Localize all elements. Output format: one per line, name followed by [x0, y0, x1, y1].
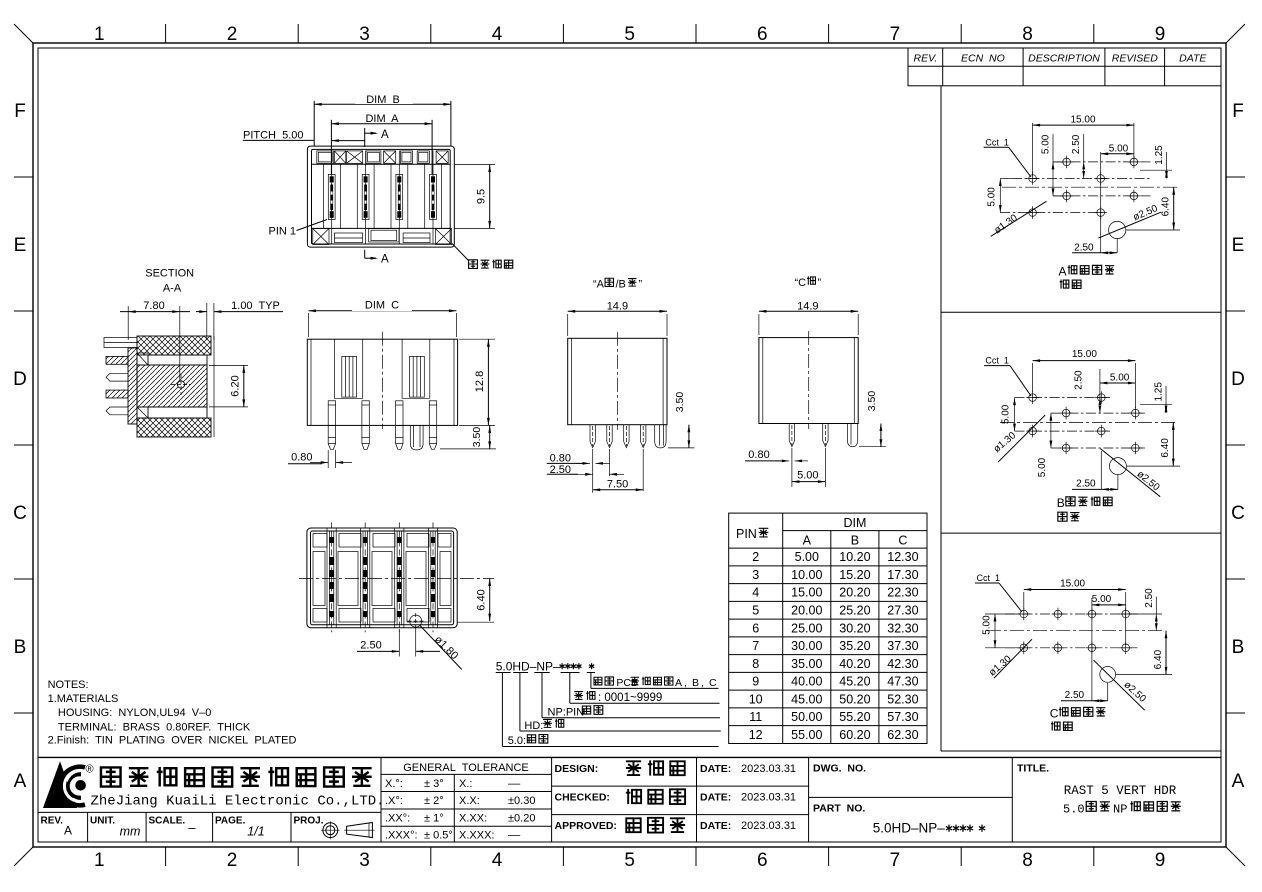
- panel C center axis dash-dot: [987, 630, 1165, 632]
- svg-text:6.40: 6.40: [475, 589, 487, 610]
- corner diagonal bottom-right: [1226, 847, 1245, 866]
- svg-text:50.00: 50.00: [791, 710, 822, 724]
- svg-text:D: D: [13, 369, 27, 390]
- projection symbol circle: [323, 823, 338, 838]
- dim 6.40 bottom view: [458, 621, 495, 623]
- svg-text:7: 7: [890, 850, 901, 871]
- svg-text:“C: “C: [795, 277, 807, 289]
- right panel bottom border: [941, 750, 1221, 752]
- svg-text:A: A: [381, 129, 389, 141]
- svg-text:0.80: 0.80: [291, 452, 312, 464]
- svg-text:10.00: 10.00: [791, 568, 822, 582]
- svg-text:30.20: 30.20: [839, 621, 870, 635]
- svg-text:SCALE.: SCALE.: [149, 816, 186, 827]
- section A-A left wall hatch: [128, 348, 137, 424]
- panel A dim 2.50 top: [1083, 134, 1085, 178]
- svg-text:±0.20: ±0.20: [508, 812, 535, 824]
- svg-text:1/1: 1/1: [247, 825, 264, 839]
- svg-text:F: F: [14, 101, 26, 122]
- svg-text:PIN: PIN: [736, 527, 757, 541]
- svg-text:A: A: [1232, 771, 1245, 792]
- svg-text:25.20: 25.20: [839, 604, 870, 618]
- bottom edge column ticks: [165, 847, 167, 866]
- svg-text:A: A: [14, 771, 27, 792]
- C type peg: [847, 424, 857, 447]
- svg-text:X.XX:: X.XX:: [459, 812, 487, 824]
- panel B leader phi1.30: [998, 415, 1045, 462]
- svg-text:1.25: 1.25: [1154, 145, 1165, 165]
- dim 6.20: [209, 364, 248, 366]
- svg-text:3: 3: [359, 850, 370, 871]
- svg-text:5.0: 5.0: [1063, 803, 1085, 817]
- svg-text:PROJ.: PROJ.: [294, 816, 324, 827]
- general tolerance table: [551, 757, 553, 842]
- projection symbol cone: [347, 823, 373, 838]
- svg-text:Cct 1: Cct 1: [985, 138, 1009, 148]
- svg-text:1.25: 1.25: [1154, 382, 1165, 402]
- bottom view terminal column 4: [427, 528, 429, 628]
- panel B hole pattern: [1029, 394, 1037, 402]
- svg-text:: 0001~9999: : 0001~9999: [598, 692, 662, 704]
- svg-text:2.50: 2.50: [1076, 479, 1096, 490]
- svg-text:5.00: 5.00: [1092, 594, 1112, 605]
- panel A dim 15.00: [1032, 123, 1034, 176]
- section A-A pin 2: [106, 356, 128, 364]
- svg-text:A: A: [675, 677, 682, 689]
- svg-text:14.9: 14.9: [797, 300, 818, 312]
- corner diagonal top-left: [14, 24, 33, 43]
- svg-text:15.00: 15.00: [1072, 349, 1097, 360]
- svg-text:6: 6: [757, 850, 768, 871]
- svg-text:3: 3: [359, 24, 370, 45]
- dim 3.50 C: [859, 446, 886, 448]
- svg-text:C: C: [1050, 707, 1059, 721]
- front view bottom notch right: [403, 233, 430, 243]
- svg-text:6: 6: [757, 24, 768, 45]
- svg-text:5.0:: 5.0:: [508, 735, 526, 747]
- panel B dim 1.25: [1140, 404, 1172, 406]
- front view bottom notch left: [334, 233, 362, 243]
- svg-text:NP:PIN: NP:PIN: [548, 706, 585, 718]
- svg-text:NP: NP: [1113, 803, 1127, 817]
- svg-text:14.9: 14.9: [607, 300, 628, 312]
- right panel divider A/B: [941, 311, 1221, 313]
- bottom view terminal column 3: [394, 528, 396, 628]
- svg-text:30.00: 30.00: [791, 639, 822, 653]
- svg-text:2.50: 2.50: [1144, 588, 1155, 608]
- section A-A hatched middle block: [137, 365, 207, 407]
- svg-text:2.Finish: TIN PLATING OVER: 2.Finish: TIN PLATING OVER NICKEL PLATED: [48, 735, 297, 747]
- panel A dim 6.40: [1126, 229, 1180, 231]
- dim 7.50 A/B: [592, 449, 594, 493]
- dim C view pins: [328, 401, 335, 426]
- svg-text:–: –: [188, 820, 196, 835]
- section A-A right wall lines: [206, 355, 208, 418]
- svg-text:7.80: 7.80: [143, 300, 164, 312]
- svg-text:35.00: 35.00: [791, 657, 822, 671]
- title block top border: [38, 756, 1221, 758]
- section mark A top: [364, 128, 366, 147]
- svg-text:10: 10: [749, 692, 763, 706]
- panel C dim 2.50 bottom: [1107, 683, 1109, 701]
- svg-text:3.50: 3.50: [471, 427, 483, 448]
- svg-text:DATE: DATE: [1179, 53, 1207, 65]
- svg-text:HD:: HD:: [524, 720, 543, 732]
- C type pins: [788, 424, 790, 441]
- svg-text:.XX°:: .XX°:: [385, 812, 410, 824]
- panel B dim 15.00: [1032, 363, 1034, 392]
- svg-text:11: 11: [749, 710, 762, 724]
- svg-text:9: 9: [1155, 850, 1166, 871]
- svg-text:DESCRIPTION: DESCRIPTION: [1028, 53, 1100, 65]
- section A-A hatched top band: [137, 336, 211, 355]
- bottom view terminal column 2: [360, 528, 362, 628]
- title block UNIT cell: [145, 812, 147, 842]
- svg-text:REVISED: REVISED: [1112, 53, 1159, 65]
- revision table frame: [908, 48, 1221, 86]
- svg-text:2: 2: [227, 24, 238, 45]
- svg-text:32.30: 32.30: [887, 621, 918, 635]
- svg-text:mm: mm: [120, 825, 141, 839]
- svg-text:ZheJiang KuaiLi Electronic Co.: ZheJiang KuaiLi Electronic Co.,LTD.: [91, 794, 385, 810]
- svg-text:6.40: 6.40: [1160, 438, 1171, 458]
- svg-text:55.20: 55.20: [839, 710, 870, 724]
- svg-text:REV.: REV.: [41, 816, 64, 827]
- svg-text:5.00: 5.00: [1110, 373, 1130, 384]
- C type centerline: [808, 331, 810, 429]
- svg-text:2.50: 2.50: [360, 640, 381, 652]
- svg-text:A: A: [64, 824, 72, 838]
- svg-text:X.X:: X.X:: [459, 795, 480, 807]
- svg-text:X.XXX:: X.XXX:: [459, 830, 494, 842]
- svg-text:5: 5: [624, 24, 635, 45]
- svg-text:1: 1: [94, 850, 105, 871]
- svg-text:5.0HD–NP–: 5.0HD–NP–: [873, 821, 946, 836]
- svg-text:––: ––: [508, 830, 521, 842]
- top edge column ticks: [165, 24, 167, 43]
- svg-text:2: 2: [752, 550, 759, 564]
- panel B dim 2.50 bottom: [1100, 451, 1102, 489]
- svg-text:,: ,: [701, 677, 704, 689]
- svg-text:“A: “A: [593, 279, 605, 291]
- panel A dim 1.25: [1140, 169, 1172, 171]
- bottom view body outline: [307, 528, 457, 628]
- svg-text:A: A: [381, 254, 389, 266]
- svg-text:2.50: 2.50: [1074, 370, 1085, 390]
- dim 5.00 C: [791, 448, 793, 487]
- corner diagonal top-right: [1226, 24, 1245, 43]
- svg-text:B: B: [1057, 496, 1065, 510]
- dim 2.50 bottom view: [398, 629, 400, 657]
- svg-text:2023.03.31: 2023.03.31: [741, 791, 796, 803]
- front view top latch band: [312, 163, 451, 165]
- panel A dim 5.00 top-left: [1052, 134, 1054, 196]
- pin dimension table frame: [729, 513, 927, 743]
- callout line 5.0 pitch: [501, 673, 503, 747]
- panel B dim 6.40: [1127, 465, 1180, 467]
- svg-text:± 1°: ± 1°: [424, 812, 444, 824]
- callout line model number: [569, 673, 571, 704]
- section A-A pin 1: [104, 337, 137, 347]
- svg-text:2.50: 2.50: [1074, 242, 1094, 253]
- panel A leader phi1.30: [991, 201, 1047, 236]
- svg-text:7.50: 7.50: [607, 478, 628, 490]
- panel C big hole phi2.50: [1100, 667, 1116, 683]
- svg-text:TITLE.: TITLE.: [1017, 763, 1049, 775]
- svg-text:55.00: 55.00: [791, 728, 822, 742]
- svg-text:8: 8: [1022, 850, 1033, 871]
- svg-text:9: 9: [1155, 24, 1166, 45]
- company logo: [43, 761, 77, 808]
- bottom view horizontal centerline: [299, 578, 494, 580]
- svg-text:17.30: 17.30: [887, 568, 918, 582]
- right panel divider B/C: [941, 532, 1221, 534]
- bottom view terminal column 1: [326, 528, 328, 628]
- svg-text:42.30: 42.30: [887, 657, 918, 671]
- svg-text:UNIT.: UNIT.: [90, 816, 115, 827]
- svg-text:57.30: 57.30: [887, 710, 918, 724]
- svg-text:40.20: 40.20: [839, 657, 870, 671]
- svg-text:27.30: 27.30: [887, 604, 918, 618]
- corner diagonal bottom-left: [14, 847, 33, 866]
- panel B dim 5.00 top-right: [1100, 382, 1136, 384]
- bottom view cavity rects middle band: [313, 552, 325, 606]
- bottom view mounting hole phi1.80: [410, 615, 422, 627]
- svg-text:15.00: 15.00: [1070, 114, 1095, 125]
- panel C leader phi2.50: [1094, 660, 1145, 710]
- svg-text:Cct 1: Cct 1: [985, 356, 1009, 366]
- svg-text:D: D: [1231, 369, 1245, 390]
- svg-text:6: 6: [752, 621, 759, 635]
- panel C dim 5.00 left: [985, 613, 1020, 615]
- svg-text:5: 5: [624, 850, 635, 871]
- svg-text:X.°:: X.°:: [385, 778, 403, 790]
- dim DIM A: [330, 120, 332, 174]
- dim C view center peg: [410, 425, 423, 450]
- panel B dim 5.00 bottom-left: [1050, 413, 1052, 448]
- svg-text:E: E: [14, 235, 27, 256]
- title block SCALE cell: [212, 812, 214, 842]
- front view lower shelf line: [312, 227, 451, 229]
- panel C row connection lines: [1005, 613, 1140, 615]
- svg-text:X.:: X.:: [459, 778, 472, 790]
- panel A dim 2.50 bottom: [1116, 239, 1118, 253]
- svg-text:10.20: 10.20: [839, 550, 870, 564]
- C type body: [759, 338, 858, 424]
- dim 14.9 A/B: [567, 314, 569, 336]
- title block REV cell: [87, 812, 89, 842]
- svg-text:DIM: DIM: [843, 516, 866, 530]
- svg-text:± 0.5°: ± 0.5°: [424, 830, 453, 842]
- title block PAGE cell: [290, 812, 292, 842]
- section A-A bottom slot: [148, 407, 207, 418]
- svg-text:5.00: 5.00: [987, 187, 998, 207]
- svg-text:5.00: 5.00: [795, 550, 819, 564]
- svg-text:.X°:: .X°:: [385, 795, 403, 807]
- callout line HD name: [519, 673, 521, 732]
- svg-text:HOUSING: NYLON,UL94 V–0: HOUSING: NYLON,UL94 V–0: [58, 707, 211, 719]
- svg-text:12.8: 12.8: [474, 371, 486, 392]
- svg-text:2023.03.31: 2023.03.31: [741, 763, 796, 775]
- svg-text:2.50: 2.50: [1071, 134, 1082, 154]
- panel A dim 5.00 top-right: [1100, 152, 1102, 253]
- design checked approved cells: [696, 757, 698, 842]
- front view cavity divider lines: [323, 164, 325, 228]
- panel B leader phi2.50: [1100, 449, 1160, 497]
- svg-text:DIM A: DIM A: [365, 113, 399, 125]
- svg-text:5.00: 5.00: [797, 470, 818, 482]
- svg-text:52.30: 52.30: [887, 692, 918, 706]
- svg-text:Cct 1: Cct 1: [977, 573, 1001, 583]
- callout line NP pin count: [541, 673, 543, 718]
- dim C view window 2: [401, 339, 403, 398]
- panel B row connection lines: [1015, 397, 1111, 399]
- svg-text:3: 3: [752, 568, 759, 582]
- section A-A top slot: [148, 355, 207, 365]
- svg-text:B: B: [14, 637, 27, 658]
- svg-text:APPROVED:: APPROVED:: [555, 820, 617, 832]
- front view body outline: [307, 146, 454, 247]
- panel C dim 15.00: [1023, 592, 1025, 610]
- svg-text:62.30: 62.30: [887, 728, 918, 742]
- svg-text:40.00: 40.00: [791, 675, 822, 689]
- dim 14.9 C: [758, 314, 760, 335]
- svg-text:DIM B: DIM B: [366, 94, 400, 106]
- svg-text:DWG. NO.: DWG. NO.: [813, 763, 866, 775]
- panel B dim 5.00 left: [1014, 398, 1016, 432]
- panel A big hole phi2.50: [1109, 221, 1126, 238]
- callout line PCB type: [590, 673, 592, 689]
- svg-text:DESIGN:: DESIGN:: [555, 763, 599, 775]
- dim 9.5 right of front view: [455, 164, 496, 166]
- svg-text:9.5: 9.5: [476, 189, 488, 204]
- svg-text:0.80: 0.80: [550, 453, 571, 465]
- panel C hole pattern: [1020, 610, 1028, 618]
- svg-text:37.30: 37.30: [887, 639, 918, 653]
- dim 3.50 A/B: [668, 447, 695, 449]
- svg-text:RAST 5 VERT HDR: RAST 5 VERT HDR: [1064, 784, 1177, 798]
- panel C dim 5.00 top: [1091, 598, 1093, 701]
- svg-text:47.30: 47.30: [887, 675, 918, 689]
- section A-A center hole: [177, 381, 184, 388]
- svg-text:3.50: 3.50: [674, 392, 686, 413]
- svg-text:6.20: 6.20: [230, 375, 242, 396]
- svg-text:2023.03.31: 2023.03.31: [741, 820, 796, 832]
- svg-text:8: 8: [1022, 24, 1033, 45]
- svg-text:5.00: 5.00: [1001, 404, 1012, 424]
- svg-text:5.00: 5.00: [982, 615, 993, 635]
- svg-text:5: 5: [752, 604, 759, 618]
- svg-text:45.20: 45.20: [839, 675, 870, 689]
- right panel border left: [940, 86, 942, 751]
- svg-text:/B: /B: [616, 279, 626, 291]
- svg-text:PAGE.: PAGE.: [215, 816, 246, 827]
- section A-A pin 5: [106, 407, 128, 415]
- svg-text:ECN NO: ECN NO: [961, 53, 1005, 65]
- svg-text:®: ®: [85, 763, 93, 775]
- panel C dim 2.50 right: [1130, 613, 1162, 615]
- section A-A pin 3: [106, 373, 128, 381]
- front view terminal 1: [331, 151, 333, 244]
- svg-text:± 3°: ± 3°: [424, 778, 444, 790]
- section A-A pin 4: [106, 390, 128, 398]
- svg-text:1: 1: [94, 24, 105, 45]
- panel B dim 2.50 top: [1099, 369, 1101, 413]
- svg-text:A-A: A-A: [163, 282, 182, 294]
- svg-text:DATE:: DATE:: [700, 820, 731, 832]
- leader phi1.80: [420, 626, 462, 670]
- svg-text:––: ––: [508, 778, 521, 790]
- A/B type body: [568, 338, 667, 424]
- front view bottom-left X box: [313, 229, 329, 245]
- svg-text:C: C: [1231, 503, 1245, 524]
- panel C leader phi1.30: [994, 639, 1032, 678]
- svg-text:TERMINAL: BRASS 0.80REF. TH: TERMINAL: BRASS 0.80REF. THICK: [58, 721, 251, 733]
- label kaikou shiyi with leader: [452, 244, 469, 262]
- dwg no cell: [1011, 757, 1013, 842]
- svg-text:8: 8: [752, 657, 759, 671]
- svg-text:±0.30: ±0.30: [508, 795, 535, 807]
- dim DIM B: [313, 101, 315, 146]
- bottom view cavity rects top band: [313, 534, 327, 548]
- front view bottom notch middle: [369, 229, 399, 243]
- A/B type pins: [589, 425, 591, 442]
- svg-text:PART NO.: PART NO.: [813, 803, 865, 815]
- svg-text:4: 4: [492, 24, 503, 45]
- svg-text:3.50: 3.50: [866, 391, 878, 412]
- svg-text:A: A: [803, 534, 812, 548]
- svg-text:DATE:: DATE:: [700, 763, 731, 775]
- panel A dim 5.00 left: [999, 179, 1001, 213]
- company name Chinese: [101, 767, 121, 786]
- svg-text:,: ,: [684, 677, 687, 689]
- svg-text:0.80: 0.80: [748, 449, 769, 461]
- svg-text:9: 9: [752, 675, 759, 689]
- panel A row connection lines: [1053, 161, 1152, 163]
- svg-text:DATE:: DATE:: [700, 791, 731, 803]
- svg-text:”: ”: [818, 277, 822, 289]
- front view bottom-right X box: [435, 229, 451, 245]
- part number underline segments: [496, 672, 511, 674]
- svg-text:7: 7: [752, 639, 759, 653]
- dim 3.50 dimC view: [440, 448, 496, 450]
- svg-text:C: C: [13, 503, 27, 524]
- svg-text:45.00: 45.00: [791, 692, 822, 706]
- svg-text:60.20: 60.20: [839, 728, 870, 742]
- svg-text:2: 2: [227, 850, 238, 871]
- panel B center axis dash-dot: [1000, 421, 1178, 423]
- dim DIM C: [308, 313, 310, 337]
- svg-text:15.00: 15.00: [1060, 579, 1085, 590]
- svg-text:GENERAL TOLERANCE: GENERAL TOLERANCE: [403, 762, 529, 774]
- svg-text:2.50: 2.50: [1065, 690, 1085, 701]
- svg-text:5.00: 5.00: [1109, 143, 1129, 154]
- svg-text:5.00: 5.00: [1037, 457, 1048, 477]
- svg-text:”: ”: [639, 279, 643, 291]
- right edge row ticks: [1226, 176, 1245, 178]
- svg-text:15.20: 15.20: [839, 568, 870, 582]
- dim C view window 1: [333, 339, 335, 398]
- svg-text:C: C: [898, 534, 907, 548]
- bottom view cavity rects bottom band: [313, 609, 327, 623]
- svg-text:SECTION: SECTION: [145, 268, 194, 280]
- front view terminal 4: [432, 151, 434, 244]
- dim C view centerline: [381, 332, 383, 429]
- front view terminal 2: [365, 151, 367, 244]
- svg-text:25.00: 25.00: [791, 621, 822, 635]
- svg-text:C: C: [709, 677, 717, 689]
- svg-text:B: B: [851, 534, 859, 548]
